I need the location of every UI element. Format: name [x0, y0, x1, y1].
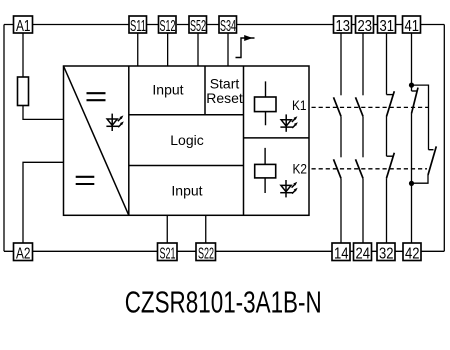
relay section divider [243, 66, 245, 215]
contact column 13-14 (NO contacts) [334, 33, 342, 243]
wire: enclosure left edge [3, 25, 5, 252]
terminal 41 [403, 16, 421, 35]
terminal 13 [334, 16, 352, 35]
wire: S21 to input block [166, 215, 168, 243]
contact column 41-42 (NC contacts, parallel branch) [412, 33, 419, 243]
terminal S22 [196, 243, 216, 262]
svg-text:Input: Input [152, 82, 183, 98]
wire: enclosure right edge [443, 25, 445, 252]
resistor R1 [18, 77, 29, 106]
wire: S34 to start/reset block [227, 33, 229, 66]
svg-text:S21: S21 [160, 245, 176, 262]
svg-text:K1: K1 [292, 98, 307, 113]
svg-text:24: 24 [356, 245, 371, 262]
terminal S11 [129, 16, 147, 35]
wire: S22 to input block [205, 215, 207, 243]
K1 mechanical linkage dashed line [312, 106, 429, 108]
power LED indicator [106, 114, 123, 131]
DC symbol upper [87, 93, 106, 100]
wire: enclosure top edge segments [4, 24, 444, 26]
node: junction bottom of 41 branch [409, 181, 414, 186]
wire: S12 to input block [167, 33, 169, 66]
svg-text:S52: S52 [190, 18, 206, 35]
logic/input divider [129, 165, 244, 167]
terminal 24 [354, 243, 372, 262]
wire: A2 to power block [23, 162, 64, 243]
wire: resistor to power block [23, 106, 64, 120]
terminal A1 [14, 16, 33, 35]
main function block outline [64, 66, 310, 215]
terminal S34 [219, 16, 237, 35]
svg-text:Reset: Reset [206, 90, 243, 106]
contact column 31-32 (NC contacts) [387, 33, 395, 243]
svg-text:42: 42 [405, 245, 420, 262]
svg-text:32: 32 [379, 245, 394, 262]
svg-text:13: 13 [336, 18, 351, 35]
svg-text:S11: S11 [130, 18, 146, 35]
DC symbol lower [76, 177, 95, 184]
terminal A2 [14, 243, 33, 262]
power supply diagonal [64, 66, 129, 215]
svg-text:A2: A2 [16, 245, 31, 262]
svg-text:S34: S34 [220, 18, 236, 35]
terminal S12 [159, 16, 177, 35]
terminal S52 [189, 16, 207, 35]
K1 LED indicator [280, 114, 297, 131]
power section divider [128, 66, 130, 215]
svg-text:A1: A1 [16, 18, 31, 35]
relay coil K2 [255, 148, 276, 193]
K2 mechanical linkage dashed line [312, 168, 428, 170]
contact column 23-24 (NO contacts) [356, 33, 364, 243]
wire: S11 to input block [137, 33, 139, 66]
svg-text:14: 14 [334, 245, 349, 262]
svg-text:S22: S22 [198, 245, 214, 262]
terminal 32 [377, 243, 395, 262]
svg-text:S12: S12 [160, 18, 176, 35]
node: junction top of 41 branch [409, 83, 414, 88]
svg-text:Start: Start [210, 76, 240, 92]
terminal 14 [332, 243, 350, 262]
reset edge-trigger arrow at S34 [236, 35, 255, 58]
svg-text:23: 23 [358, 18, 373, 35]
wire: enclosure bottom edge segments [4, 250, 444, 252]
svg-text:K2: K2 [293, 162, 308, 177]
svg-text:41: 41 [405, 18, 420, 35]
svg-text:Input: Input [171, 183, 202, 199]
K2 LED indicator [280, 180, 297, 197]
wire: 41 parallel branch [412, 85, 437, 183]
terminal S21 [158, 243, 178, 262]
start-reset divider [204, 66, 206, 115]
relay coil K1 [255, 81, 277, 125]
wire: A1 to resistor [22, 33, 24, 77]
svg-text:31: 31 [380, 18, 395, 35]
terminal 31 [378, 16, 396, 35]
svg-text:Logic: Logic [170, 132, 203, 148]
svg-text:CZSR8101-3A1B-N: CZSR8101-3A1B-N [125, 284, 322, 319]
input/logic divider [129, 114, 244, 116]
terminal 42 [403, 243, 421, 262]
K1/K2 compartment divider [244, 137, 310, 139]
wire: S52 to input block [197, 33, 199, 66]
terminal 23 [356, 16, 374, 35]
